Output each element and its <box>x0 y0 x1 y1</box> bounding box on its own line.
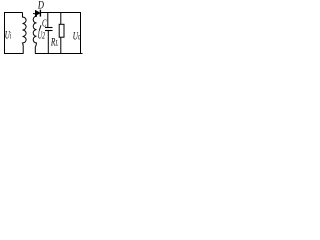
svg-text:RL: RL <box>50 37 58 49</box>
svg-text:Ui: Ui <box>5 29 11 42</box>
svg-text:C: C <box>42 17 47 29</box>
svg-text:D: D <box>37 0 44 12</box>
svg-text:U2: U2 <box>38 30 45 41</box>
svg-text:Uo: Uo <box>73 30 81 43</box>
